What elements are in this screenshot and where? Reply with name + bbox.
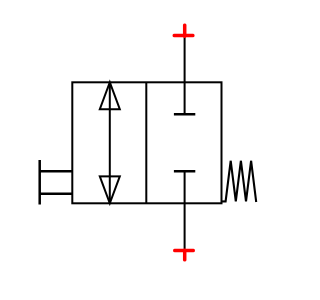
left port bar [38, 160, 41, 205]
arrowhead down [100, 176, 120, 203]
terminal cross bottom [175, 250, 193, 259]
blocked port T bottom [174, 170, 195, 173]
terminal cross top [174, 25, 193, 36]
blocked port T top [174, 113, 195, 116]
position divider [145, 82, 147, 203]
flow arrow shaft [109, 82, 111, 203]
wire top port [184, 36, 186, 114]
left port line lower [40, 192, 73, 195]
arrowhead up [100, 82, 120, 109]
left port line upper [40, 170, 73, 173]
valve body V1 [72, 82, 221, 203]
spring [222, 161, 257, 202]
wire bottom port [184, 171, 186, 249]
